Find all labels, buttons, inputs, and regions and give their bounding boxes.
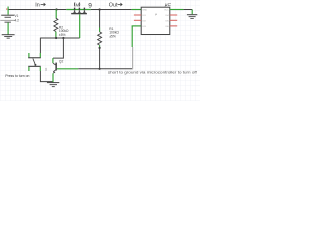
pin 3 [134, 19, 141, 21]
svg-text:M: M [76, 2, 80, 7]
node In label [35, 2, 45, 8]
transistor Q2 [44, 60, 64, 74]
svg-text:U1: U1 [44, 67, 48, 71]
junction gate rail / Q2 collector [62, 37, 64, 39]
svg-text:±5%: ±5% [109, 35, 116, 39]
svg-text:Q2: Q2 [59, 60, 64, 64]
wire R1 top [99, 10, 101, 32]
resistor R1 [98, 27, 120, 45]
wire gate rail [40, 37, 79, 39]
ground IC [187, 14, 197, 19]
svg-text:±5%: ±5% [59, 33, 66, 37]
svg-text:short to ground via microcontr: short to ground via microcontroller to t… [108, 70, 198, 74]
svg-text:Out: Out [109, 2, 118, 8]
svg-text:4.2: 4.2 [15, 19, 20, 23]
junction gate rail / R2 [55, 37, 57, 39]
svg-text:GND: GND [142, 10, 147, 12]
svg-text:9: 9 [88, 2, 92, 9]
resistor R2 [54, 18, 69, 37]
ground battery [2, 34, 15, 38]
MOSFET Q1 [71, 2, 92, 14]
junction In rail / R2 [55, 8, 57, 10]
junction Out rail / R1 [99, 8, 101, 10]
wire Q2 emitter to ground [52, 73, 54, 82]
svg-text:In: In [35, 2, 40, 8]
IC U2 microcontroller [134, 2, 177, 35]
wire R1 bottom stub [99, 45, 101, 47]
pin 2 [134, 14, 141, 16]
wire switch left stub [28, 53, 30, 58]
svg-text:Press to turn on: Press to turn on [5, 73, 29, 78]
wire gate rail to switch [39, 38, 41, 58]
wire switch bottom to ground node [40, 67, 53, 82]
pin 6 [170, 19, 177, 21]
wire Out rail [91, 9, 141, 11]
wire Q2 base [57, 68, 100, 70]
svg-text:V1: V1 [15, 14, 19, 18]
ground Q2 [47, 82, 59, 87]
wire In rail [8, 9, 91, 11]
wire Q1 gate stem [79, 14, 81, 38]
wire switch bottom left stub [28, 67, 30, 71]
junction base node [99, 68, 101, 70]
pin 7 [170, 14, 177, 16]
battery V1 positive terminal dot [6, 9, 7, 10]
svg-text:µC: µC [165, 2, 172, 8]
svg-text:µ: µ [155, 12, 157, 16]
pin 5 [170, 25, 177, 27]
wire R2 bottom stub [55, 32, 57, 38]
pushbutton S1 [28, 57, 41, 67]
wire IC VCC pin to ground [170, 10, 192, 15]
wire R2 top stub [55, 10, 57, 19]
junction R1 bottom [99, 47, 101, 49]
wire Q2 collector from gate rail [53, 38, 64, 63]
battery V1 [0, 7, 19, 23]
wire battery to ground [7, 23, 9, 35]
wire R1 to base node [99, 48, 101, 69]
svg-text:VCC: VCC [164, 10, 169, 12]
wire base node to IC pin [100, 26, 142, 69]
node Out label [109, 2, 122, 8]
